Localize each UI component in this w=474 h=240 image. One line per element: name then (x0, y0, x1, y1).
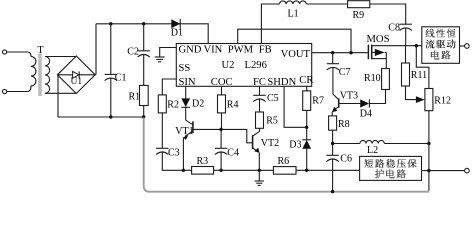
svg-text:VIN: VIN (204, 45, 223, 56)
svg-text:MOS: MOS (367, 34, 390, 45)
svg-text:D4: D4 (360, 109, 372, 120)
svg-text:VT2: VT2 (261, 138, 279, 149)
svg-text:R10: R10 (364, 73, 381, 84)
svg-text:C4: C4 (227, 148, 239, 159)
svg-text:PWM: PWM (228, 45, 254, 56)
svg-text:SIN: SIN (179, 77, 196, 88)
svg-text:R8: R8 (338, 119, 350, 130)
svg-text:SHDN: SHDN (267, 77, 296, 88)
svg-text:CR: CR (299, 75, 314, 86)
svg-text:FB: FB (259, 45, 272, 56)
svg-text:R6: R6 (278, 156, 290, 167)
svg-text:C2: C2 (127, 47, 139, 58)
svg-text:U2: U2 (222, 60, 235, 71)
svg-text:C7: C7 (339, 67, 351, 78)
svg-text:D3: D3 (289, 139, 301, 150)
svg-text:R3: R3 (197, 156, 209, 167)
svg-text:R11: R11 (411, 70, 427, 81)
svg-text:R12: R12 (434, 95, 451, 106)
svg-text:L1: L1 (288, 9, 299, 20)
svg-text:C6: C6 (340, 154, 352, 165)
svg-text:C1: C1 (115, 73, 127, 84)
svg-text:L2: L2 (367, 145, 378, 156)
svg-text:R9: R9 (353, 10, 365, 21)
svg-text:R2: R2 (167, 99, 179, 110)
svg-text:D1: D1 (171, 27, 183, 38)
svg-text:D2: D2 (192, 99, 204, 110)
svg-text:L296: L296 (245, 60, 267, 71)
svg-text:R4: R4 (227, 99, 239, 110)
svg-text:VT3: VT3 (340, 91, 358, 102)
svg-text:C8: C8 (388, 22, 400, 33)
svg-text:C5: C5 (267, 93, 279, 104)
svg-text:R5: R5 (266, 115, 278, 126)
svg-text:C3: C3 (168, 148, 180, 159)
svg-text:VT1: VT1 (175, 126, 193, 137)
svg-text:R1: R1 (129, 92, 141, 103)
svg-text:T: T (38, 45, 44, 56)
svg-text:GND: GND (179, 45, 202, 56)
svg-text:R7: R7 (312, 95, 324, 106)
svg-text:SS: SS (179, 63, 191, 74)
svg-text:VOUT: VOUT (281, 49, 311, 60)
svg-text:U1: U1 (71, 77, 83, 87)
